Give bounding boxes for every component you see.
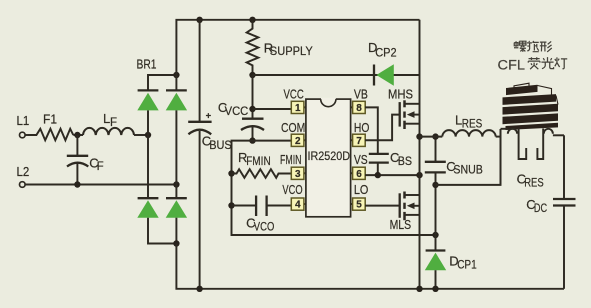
junction COM wire CVCC [249, 137, 255, 143]
svg-text:VCO: VCO [282, 182, 302, 197]
lamp filament right [544, 129, 564, 136]
svg-text:CFL: CFL [498, 58, 526, 73]
svg-text:VCC: VCC [225, 106, 249, 118]
pin 6 VS [351, 152, 368, 180]
capacitor CVCC [218, 75, 264, 141]
svg-text:CP1: CP1 [457, 259, 477, 271]
svg-text:7: 7 [356, 136, 362, 147]
wire VS [365, 174, 420, 176]
junction MLS source bus [416, 286, 422, 292]
CFL lamp spiral tube [503, 83, 559, 130]
wire half-bridge column [419, 20, 421, 289]
capacitor CSNUB [425, 159, 483, 235]
fuse F1 [28, 112, 73, 141]
junction bridge AC right [173, 181, 179, 187]
wire HO to MHS gate [365, 115, 400, 141]
resistor RSUPPLY [247, 20, 313, 75]
svg-text:F1: F1 [43, 112, 57, 127]
op-amp U1 IC IR2520D body [306, 98, 351, 217]
pin 2 COM [281, 120, 306, 147]
label 螺旋形 hand-drawn glyphs [514, 41, 552, 52]
svg-text:BUS: BUS [209, 140, 232, 152]
svg-text:3: 3 [295, 169, 301, 180]
svg-text:F: F [110, 117, 117, 129]
svg-text:MHS: MHS [388, 86, 413, 101]
wire VCC to DCP2 to MHS drain [253, 74, 420, 76]
svg-text:SNUB: SNUB [453, 165, 483, 177]
wire LRES to lamp [496, 136, 501, 138]
svg-text:1: 1 [295, 103, 301, 114]
wire CSNUB to lamp [436, 129, 501, 185]
junction VS half-bridge [416, 172, 422, 178]
svg-text:+: + [206, 111, 212, 122]
diode BR1 top-left [137, 90, 158, 135]
terminal L2 [17, 164, 30, 187]
pin 3 FMIN [280, 152, 306, 180]
junction CVCO left [228, 202, 234, 208]
inductor LRES [442, 113, 495, 137]
svg-text:VS: VS [354, 152, 368, 167]
inductor LF [83, 111, 134, 135]
diode BR1 bottom-right [166, 185, 187, 244]
svg-text:CP2: CP2 [375, 47, 396, 59]
junction bridge AC left [145, 132, 151, 138]
wire L1 to F1 [25, 134, 29, 136]
svg-text:8: 8 [356, 103, 362, 114]
wire LF to bridge [134, 134, 148, 136]
wire bridge to ground bus [176, 244, 564, 289]
svg-text:L1: L1 [17, 113, 30, 128]
junction CBS VS [375, 172, 381, 178]
diode BR1 top-right [166, 75, 187, 185]
svg-text:SUPPLY: SUPPLY [270, 46, 313, 58]
wire F1 to node [73, 134, 83, 136]
terminal L1 [17, 113, 30, 138]
svg-text:BR1: BR1 [137, 57, 157, 72]
junction bus CBUS [196, 286, 202, 292]
svg-text:FMIN: FMIN [246, 156, 271, 168]
wire lamp left leg [500, 129, 502, 185]
junction top rail CBUS [196, 17, 202, 23]
pin 7 HO [351, 120, 370, 147]
junction LRES CSNUB [432, 133, 438, 139]
pin 4 VCO [282, 182, 306, 211]
diode DCP1 [425, 235, 477, 289]
lamp filament left [501, 129, 518, 134]
wire bridge top bar [148, 75, 176, 91]
wire COM from pin 2 [232, 141, 436, 235]
svg-text:F: F [97, 161, 104, 173]
pin 8 VB [351, 87, 368, 114]
junction bridge top [173, 72, 179, 78]
svg-text:IR2520D: IR2520D [308, 149, 351, 163]
svg-text:LO: LO [354, 182, 369, 197]
wire CSNUB column [435, 137, 437, 162]
svg-text:RES: RES [524, 177, 544, 189]
junction CSNUB bottom lamp wire [432, 182, 438, 188]
svg-text:RES: RES [462, 118, 483, 130]
junction DCP1 bus [432, 286, 438, 292]
svg-text:VCC: VCC [284, 87, 304, 102]
resistor RFMIN [232, 150, 292, 178]
junction RFMIN left [228, 170, 234, 176]
svg-text:6: 6 [356, 169, 362, 180]
junction top rail RSUPPLY [249, 17, 255, 23]
capacitor CRES with filament pins [517, 129, 544, 190]
svg-text:VCO: VCO [254, 222, 275, 234]
svg-text:COM: COM [281, 120, 305, 135]
wire DC+ rail riser [176, 20, 419, 75]
svg-text:MLS: MLS [390, 217, 412, 232]
svg-text:4: 4 [295, 200, 301, 211]
wire to pin 1 [253, 108, 292, 110]
svg-text:2: 2 [295, 136, 301, 147]
svg-text:5: 5 [356, 200, 362, 211]
diode DCP2 [368, 40, 397, 85]
svg-text:VB: VB [354, 87, 368, 102]
svg-text:BS: BS [398, 156, 413, 168]
pin 5 LO [351, 182, 369, 211]
wire L2 to bridge [25, 184, 176, 186]
junction bridge bottom [173, 240, 179, 246]
capacitor CBUS [188, 20, 232, 289]
wire half-bridge to LRES [420, 136, 443, 138]
wire VB to CBS [365, 107, 378, 154]
capacitor CF [67, 135, 104, 185]
svg-text:HO: HO [354, 120, 370, 135]
capacitor CDC [526, 135, 575, 288]
wire LO to MLS gate [365, 205, 400, 207]
pin 1 VCC [284, 87, 306, 114]
diode BR1 bottom-left [137, 135, 176, 244]
junction VCC node [249, 72, 255, 78]
capacitor CBS [369, 150, 413, 175]
junction VCC pin wire [249, 106, 255, 112]
capacitor CVCO [232, 196, 292, 234]
svg-text:L2: L2 [17, 164, 30, 179]
transistor MLS [390, 192, 420, 232]
svg-text:FMIN: FMIN [280, 152, 302, 167]
transistor MHS [388, 86, 420, 129]
junction CF bottom [74, 181, 80, 187]
junction ground wire DCP1 [432, 232, 438, 238]
junction half-bridge node [416, 133, 422, 139]
junction CF top [74, 132, 80, 138]
svg-text:DC: DC [534, 203, 547, 215]
